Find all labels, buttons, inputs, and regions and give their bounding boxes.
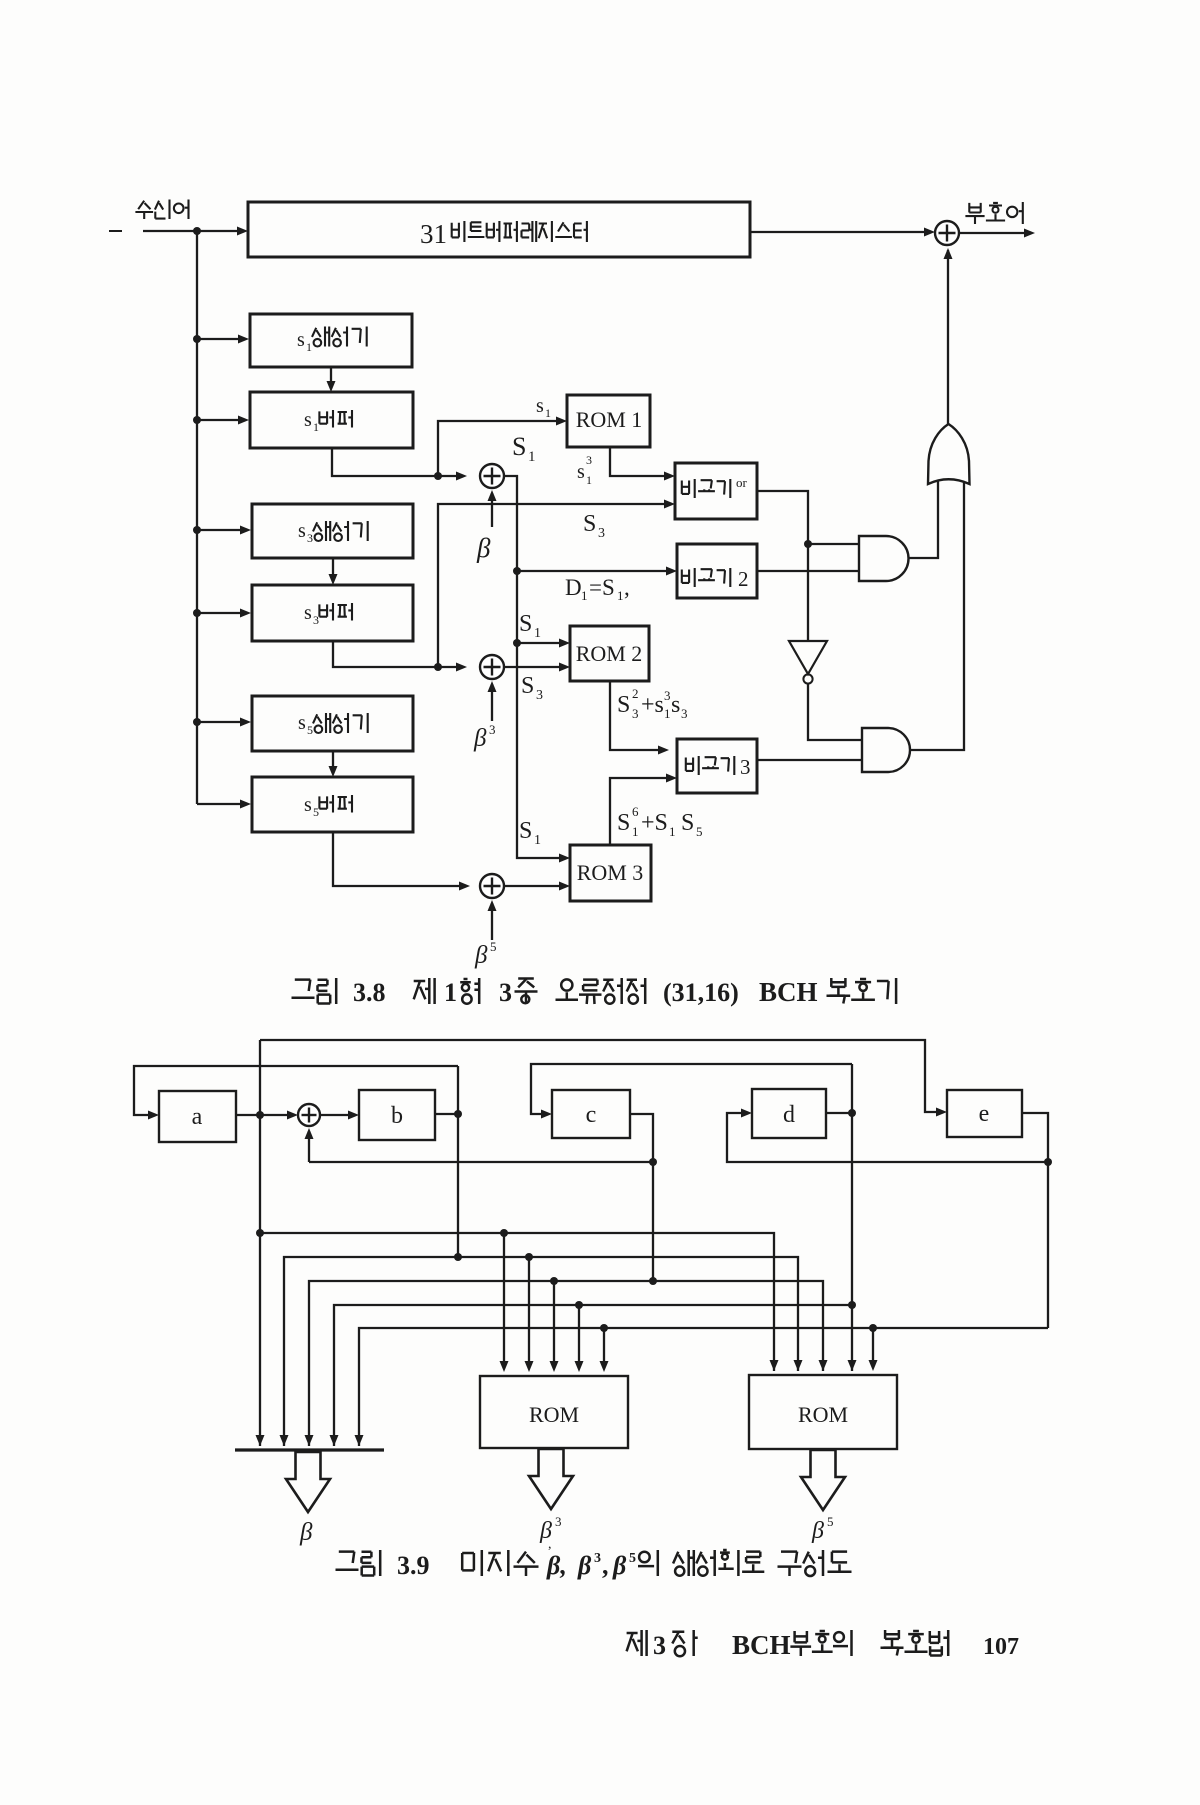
adder XOR1 — [480, 464, 504, 488]
footer chapter line — [627, 1630, 1019, 1660]
svg-text:BCH: BCH — [759, 977, 818, 1007]
wire crossbar line2 — [284, 1257, 798, 1446]
svg-text:β: β — [299, 1519, 313, 1546]
svg-text:1: 1 — [632, 824, 639, 839]
adder XOR2 — [480, 655, 504, 679]
svg-text:=S: =S — [589, 575, 615, 600]
wire d output — [826, 1112, 852, 1114]
svg-text:S: S — [583, 511, 596, 537]
junction input node — [193, 227, 201, 235]
wire adder feedback line — [308, 1131, 310, 1162]
wire register to XOR-out — [750, 228, 935, 237]
svg-text:a: a — [192, 1104, 203, 1130]
label S1 at XOR1 — [512, 432, 536, 465]
junction D1 — [513, 567, 521, 575]
block b — [359, 1090, 435, 1140]
ROM 3 — [570, 845, 651, 901]
wire b output — [435, 1113, 458, 1115]
wire S1 to ROM2 — [517, 639, 570, 648]
wire ROM1 in3 — [550, 1281, 559, 1372]
junction L4-ROM1 — [575, 1301, 583, 1309]
label 비교기 3 — [686, 755, 751, 779]
svg-text:(31,16): (31,16) — [663, 978, 739, 1007]
block s5 buffer — [252, 777, 413, 832]
label s1 small — [536, 395, 551, 420]
block d — [752, 1089, 826, 1138]
wire feedback e to d input — [727, 1109, 1048, 1163]
svg-text:S: S — [519, 611, 532, 637]
svg-text:5: 5 — [696, 824, 703, 839]
svg-text:5: 5 — [307, 723, 313, 737]
wire s5 generator to s5 buffer — [329, 751, 338, 777]
svg-text:b: b — [391, 1103, 403, 1129]
wire AND1 output to OR gate — [909, 480, 938, 558]
wire crossbar line5 — [359, 1328, 1048, 1446]
svg-text:3: 3 — [653, 1631, 666, 1660]
arrowheads bus — [256, 1435, 265, 1446]
svg-text:31: 31 — [420, 219, 447, 249]
label S3^2+s1^3 s3 — [617, 686, 688, 721]
wire ROM3 output to comparator3 — [610, 774, 677, 846]
beta bus bar — [235, 1448, 384, 1451]
output arrow beta5 — [801, 1450, 845, 1510]
svg-text:,: , — [624, 575, 630, 600]
wire comparator2 to AND1 input2 — [757, 570, 859, 572]
svg-text:2: 2 — [738, 567, 749, 591]
svg-text:1: 1 — [664, 706, 671, 721]
svg-text:ROM 2: ROM 2 — [576, 641, 643, 666]
svg-text:s: s — [298, 520, 306, 542]
wire a-node vertical — [259, 1040, 261, 1446]
label s3버퍼 — [304, 602, 352, 627]
comparator 2 — [677, 544, 757, 598]
wire s5 buffer output to adder XOR3 — [333, 832, 470, 891]
svg-text:3: 3 — [598, 526, 605, 541]
wire feedback d to c input — [531, 1064, 852, 1119]
svg-text:d: d — [783, 1102, 795, 1128]
node 수신어 input label — [135, 200, 188, 220]
wire s3 buffer output to adder XOR2 — [333, 641, 467, 672]
label 비교기 or — [682, 475, 748, 498]
caption figure 3.8 — [292, 977, 897, 1007]
wire to AND1 input1 — [808, 543, 859, 545]
wire input start dash — [109, 230, 122, 232]
svg-text:ROM 3: ROM 3 — [577, 860, 644, 885]
svg-text:1: 1 — [313, 420, 319, 434]
svg-text:3: 3 — [489, 722, 496, 737]
wire top loop a-node to e input — [260, 1040, 947, 1117]
svg-text:s: s — [536, 395, 544, 417]
svg-text:1: 1 — [617, 588, 624, 603]
svg-text:,: , — [602, 1551, 609, 1580]
wire left bus vertical — [196, 231, 198, 804]
wire ROM2 in4 arrowhead — [848, 1360, 857, 1371]
svg-text:ROM 1: ROM 1 — [576, 407, 643, 432]
svg-text:1: 1 — [306, 340, 312, 354]
svg-text:ROM: ROM — [798, 1402, 848, 1427]
svg-text:β,: β, — [546, 1551, 567, 1580]
svg-text:3: 3 — [740, 755, 751, 779]
svg-text:D: D — [565, 575, 582, 600]
junction a node — [256, 1111, 264, 1119]
junction comparator-or to AND1 — [804, 540, 812, 548]
output arrow beta3 — [529, 1449, 573, 1509]
label beta5 — [474, 939, 497, 969]
ROM (beta5) — [749, 1375, 897, 1449]
svg-text:1: 1 — [586, 473, 592, 487]
svg-text:5: 5 — [313, 805, 319, 819]
block s1 buffer — [250, 392, 413, 448]
junction e feedback — [1044, 1158, 1052, 1166]
label D1=S1 — [565, 575, 630, 603]
svg-text:s: s — [304, 794, 312, 816]
arrowheads ROM2 in1-3 — [770, 1360, 779, 1371]
wire beta3 into XOR2 — [488, 681, 497, 721]
label S1 ROM2 — [519, 611, 541, 641]
label beta3 — [473, 722, 496, 752]
junction L5-ROM1 — [600, 1324, 608, 1332]
label 비교기 2 — [682, 567, 749, 591]
label 부호어 — [965, 202, 1022, 224]
svg-text:3: 3 — [664, 688, 671, 703]
wire ROM1 in2 — [525, 1257, 534, 1372]
wire D1 to comparator2 — [517, 567, 677, 576]
svg-text:3: 3 — [681, 706, 688, 721]
label S1^6+S1 S5 — [617, 804, 703, 839]
svg-text:e: e — [979, 1101, 990, 1127]
svg-text:s: s — [304, 409, 312, 431]
svg-text:1: 1 — [669, 824, 676, 839]
comparator 1 (or) — [675, 463, 757, 519]
svg-text:3: 3 — [536, 688, 543, 703]
wire bus to s5 generator — [193, 718, 251, 727]
svg-text:3: 3 — [313, 613, 319, 627]
label S1 ROM3 path — [519, 818, 541, 848]
wire bus to s1 buffer — [193, 416, 249, 425]
label beta5 — [811, 1514, 834, 1544]
svg-text:s: s — [297, 329, 305, 351]
output arrow beta — [286, 1452, 330, 1512]
wire ROM1 in1 — [500, 1233, 509, 1372]
svg-text:3: 3 — [586, 453, 592, 467]
svg-text:S: S — [617, 810, 630, 836]
svg-text:1: 1 — [581, 588, 588, 603]
svg-text:6: 6 — [632, 804, 639, 819]
svg-text:5: 5 — [490, 939, 497, 954]
junction s3 node — [434, 663, 442, 671]
AND gate 2 — [862, 728, 910, 772]
svg-text:c: c — [586, 1102, 597, 1128]
label 31비트버퍼레지스터 — [420, 219, 587, 249]
svg-text:s: s — [577, 461, 585, 483]
wire XOR1 output S1 vertical — [504, 476, 570, 863]
wire AND2 output to OR gate — [910, 480, 964, 750]
svg-text:3.8: 3.8 — [353, 978, 386, 1007]
OR gate — [928, 424, 970, 484]
svg-text:3: 3 — [632, 706, 639, 721]
caption figure 3.9 — [336, 1550, 852, 1580]
label s5버퍼 — [304, 794, 352, 819]
junction s1 node — [434, 472, 442, 480]
svg-text:2: 2 — [632, 686, 639, 701]
svg-text:β: β — [476, 533, 491, 563]
label S3 XOR2 out — [521, 673, 543, 703]
svg-text:s: s — [298, 712, 306, 734]
svg-text:β: β — [612, 1551, 627, 1580]
svg-text:3: 3 — [307, 531, 313, 545]
label beta3 — [539, 1514, 562, 1552]
svg-text:1: 1 — [534, 833, 541, 848]
svg-text:3: 3 — [555, 1514, 562, 1529]
wire s3 generator to s3 buffer — [329, 558, 338, 585]
block a — [159, 1091, 236, 1142]
wire crossbar line1 — [260, 1233, 774, 1371]
svg-text:β: β — [577, 1551, 592, 1580]
svg-text:3: 3 — [594, 1551, 601, 1566]
label s1^3 — [577, 453, 592, 487]
wire bus to s5 buffer — [197, 800, 251, 809]
adder XOR3 — [480, 874, 504, 898]
wire ROM2 output to comparator3 — [610, 681, 669, 755]
svg-text:β: β — [473, 725, 487, 752]
svg-text:S: S — [617, 692, 630, 718]
svg-text:3.9: 3.9 — [397, 1551, 430, 1580]
AND gate 1 — [859, 536, 909, 581]
wire c output — [630, 1114, 653, 1281]
label s1버퍼 — [304, 409, 352, 434]
wire XOR2 output to ROM2 — [504, 663, 570, 672]
junction L2-ROM1 — [525, 1253, 533, 1261]
junction L1-a — [256, 1229, 264, 1237]
wire beta into XOR1 — [488, 490, 497, 527]
wire ROM1 in4 — [575, 1305, 584, 1372]
svg-text:s: s — [304, 602, 312, 624]
wire bus to s1 generator — [193, 335, 249, 344]
svg-text:S: S — [512, 432, 526, 461]
wire ROM2 in5 — [869, 1328, 878, 1371]
block s1 generator — [250, 314, 412, 367]
svg-text:3: 3 — [499, 978, 512, 1007]
svg-text:S: S — [521, 673, 534, 699]
wire d output vertical — [851, 1064, 853, 1371]
svg-text:S: S — [519, 818, 532, 844]
register 31-bit buffer — [248, 202, 750, 257]
wire feedback b to a input — [134, 1066, 458, 1120]
junction L3-c — [649, 1277, 657, 1285]
label S3 line — [583, 511, 605, 541]
wire ROM1 in5 — [600, 1328, 609, 1372]
block s3 buffer — [252, 585, 413, 641]
inverter — [789, 641, 827, 674]
block s3 generator — [252, 504, 413, 558]
wire comparator-or output — [757, 491, 808, 641]
wire bus to s3 generator — [193, 526, 251, 535]
svg-text:or: or — [736, 475, 748, 490]
junction L5-ROM2 — [869, 1324, 877, 1332]
svg-text:ROM: ROM — [529, 1402, 579, 1427]
junction L1-ROM1 — [500, 1229, 508, 1237]
svg-text:1: 1 — [534, 626, 541, 641]
block s5 generator — [252, 696, 413, 751]
wire XOR-out to output — [959, 229, 1035, 238]
wire b output vertical — [457, 1066, 459, 1257]
wire S3 to comparator-or — [438, 500, 675, 668]
comparator 3 — [677, 739, 757, 793]
wire s1 generator to s1 buffer — [327, 367, 336, 392]
block c — [552, 1090, 630, 1138]
svg-text:+S: +S — [641, 810, 668, 836]
svg-text:1: 1 — [444, 978, 457, 1007]
wire s1 to ROM1 — [438, 417, 567, 477]
junction L4-d — [848, 1301, 856, 1309]
label s3생성기 — [298, 520, 368, 545]
wire crossbar line4 — [334, 1305, 852, 1446]
wire bus to s3 buffer — [193, 609, 251, 618]
svg-text:BCH: BCH — [732, 1630, 791, 1660]
junction d output — [848, 1109, 856, 1117]
wire beta5 into XOR3 — [488, 900, 497, 940]
wire inverter to AND2 input1 — [808, 684, 862, 740]
ROM 1 — [567, 395, 650, 447]
junction c to adder-feedback — [649, 1158, 657, 1166]
svg-text:107: 107 — [983, 1634, 1019, 1660]
label s5생성기 — [298, 712, 368, 737]
svg-text:5: 5 — [827, 1514, 834, 1529]
ROM 2 — [570, 626, 649, 681]
wire crossbar line3 — [309, 1281, 823, 1446]
svg-text:5: 5 — [629, 1551, 636, 1566]
ROM (beta3) — [480, 1376, 628, 1448]
svg-text:,: , — [548, 1537, 552, 1552]
wire OR output to XOR-out — [944, 248, 953, 425]
svg-text:+s: +s — [641, 692, 664, 718]
svg-text:S: S — [681, 810, 694, 836]
wire adder to b — [320, 1111, 359, 1120]
svg-text:1: 1 — [528, 449, 536, 465]
junction ROM2 in1 — [513, 639, 521, 647]
svg-text:β: β — [811, 1518, 824, 1544]
wire input to register — [143, 227, 248, 236]
svg-text:s: s — [671, 692, 680, 718]
junction L2-b — [454, 1253, 462, 1261]
adder XOR output — [935, 221, 959, 245]
block e — [947, 1090, 1022, 1137]
wire comparator3 to AND2 input2 — [757, 759, 862, 761]
junction L3-ROM1 — [550, 1277, 558, 1285]
wire a output to adder — [236, 1111, 298, 1120]
svg-text:1: 1 — [545, 406, 551, 420]
adder XOR (fig 3.9) — [298, 1104, 320, 1126]
label s1생성기 — [297, 327, 367, 355]
wire XOR3 output to ROM3 — [504, 882, 570, 891]
wire e output — [1022, 1113, 1048, 1328]
wire ROM1 output to comparator-or — [610, 447, 675, 481]
junction b output — [454, 1110, 462, 1118]
wire s1 buffer output to adder — [332, 448, 467, 481]
svg-text:β: β — [474, 942, 488, 969]
